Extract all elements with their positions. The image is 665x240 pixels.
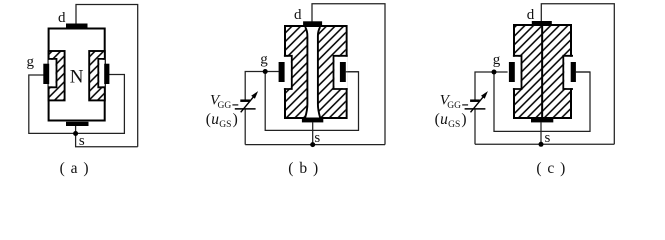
label pointer dash (c) xyxy=(462,104,468,106)
wire: left gate lead (a) xyxy=(29,75,125,134)
node s junction dot (a) xyxy=(73,131,78,136)
depletion window left (a) xyxy=(49,60,56,87)
svg-text:u: u xyxy=(211,111,219,128)
gate window right (c) xyxy=(564,57,573,88)
node s junction dot (c) xyxy=(539,142,544,147)
svg-text:g: g xyxy=(26,54,34,70)
gate window right (b) xyxy=(334,57,347,88)
svg-text:g: g xyxy=(493,52,501,68)
P+ gate region right, hatched (a) xyxy=(89,51,105,100)
wire: drain top lead (c) xyxy=(541,4,614,145)
node gate junction dot (c) xyxy=(492,70,497,75)
JFET body (b) xyxy=(285,26,347,118)
wire: drain top lead (b) xyxy=(312,4,385,145)
gate window left (c) xyxy=(513,57,521,88)
channel white (b) xyxy=(305,27,320,118)
battery VGG long plate (b) xyxy=(235,108,256,110)
channel boundary left (b) xyxy=(305,27,307,118)
pinched channel centre line (c) xyxy=(541,25,543,118)
wire: gate lead left with VGG branch (b) xyxy=(245,72,279,100)
depletion window right (a) xyxy=(99,60,105,87)
svg-text:(: ( xyxy=(435,111,440,128)
svg-text:GG: GG xyxy=(218,101,232,111)
wire stub right gate (c) xyxy=(576,71,591,73)
gate contact bar right (b) xyxy=(340,62,346,82)
svg-text:s: s xyxy=(79,133,85,149)
wire: gate lead left with VGG branch (c) xyxy=(475,72,508,100)
svg-text:GS: GS xyxy=(219,120,231,130)
node gate junction dot (b) xyxy=(263,69,268,74)
gate contact bar left (a) xyxy=(43,64,49,84)
wire: bottom source net (b) xyxy=(245,144,385,146)
svg-text:g: g xyxy=(260,52,268,68)
svg-text:): ) xyxy=(461,111,466,128)
svg-text:(: ( xyxy=(206,111,211,128)
gate contact bar left (b) xyxy=(279,62,285,82)
wire: source stub (c) xyxy=(540,122,542,144)
JFET body (c) xyxy=(514,25,571,118)
wire stub right gate (b) xyxy=(346,71,359,73)
node s junction dot (b) xyxy=(310,142,315,147)
svg-text:( c ): ( c ) xyxy=(536,160,566,177)
depletion hatched region (c) xyxy=(515,26,570,117)
svg-text:( a ): ( a ) xyxy=(60,160,90,177)
source contact bar (c) xyxy=(531,118,553,122)
svg-text:d: d xyxy=(58,10,66,26)
wire: drain top lead (a) xyxy=(76,5,138,147)
variable source arrow (c) xyxy=(471,95,485,112)
P+ gate region left, hatched (a) xyxy=(49,51,65,100)
wire: right gate loop (c) xyxy=(494,72,590,131)
depletion hatched region (b) xyxy=(286,27,346,117)
svg-text:d: d xyxy=(527,7,535,23)
channel boundary right (b) xyxy=(318,27,320,118)
svg-text:s: s xyxy=(544,130,550,146)
variable source arrow (b) xyxy=(241,95,255,112)
svg-text:( b ): ( b ) xyxy=(288,160,319,177)
svg-text:GS: GS xyxy=(448,120,460,130)
label pointer dash (b) xyxy=(232,104,238,106)
drain contact bar (a) xyxy=(66,24,88,28)
svg-text:d: d xyxy=(294,7,302,23)
svg-text:s: s xyxy=(314,130,320,146)
gate contact bar right (c) xyxy=(571,62,576,82)
drain contact bar (c) xyxy=(532,21,552,25)
svg-text:u: u xyxy=(440,111,448,128)
source contact bar (a) xyxy=(66,122,89,126)
wire: source stub (b) xyxy=(312,122,314,144)
svg-text:): ) xyxy=(233,111,238,128)
battery VGG short plate (b) xyxy=(240,99,250,102)
battery VGG long plate (c) xyxy=(465,108,486,110)
source contact bar (b) xyxy=(302,118,323,122)
wire: bottom source net (c) xyxy=(475,143,614,145)
svg-text:GG: GG xyxy=(447,101,461,111)
drain contact bar (b) xyxy=(303,21,322,25)
JFET body N region (a) xyxy=(49,29,105,121)
wire: source-to-outer bottom lead (a) xyxy=(76,125,138,146)
battery VGG short plate (c) xyxy=(470,99,480,102)
svg-text:N: N xyxy=(70,66,84,87)
gate contact bar left (c) xyxy=(509,62,515,82)
gate window left (b) xyxy=(284,57,291,88)
wire: right gate loop (b) xyxy=(265,72,358,131)
gate contact bar right (a) xyxy=(104,64,109,84)
